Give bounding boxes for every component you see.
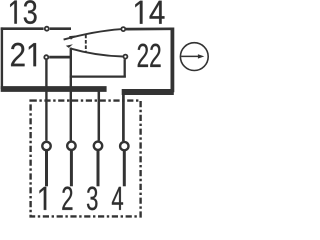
wire: fixed contact line 13 (right of circle, ends at gap) xyxy=(50,27,71,30)
terminal 3 stub xyxy=(97,151,100,187)
contact terminal circle 13 xyxy=(45,27,49,31)
terminal 4 stub xyxy=(123,151,126,186)
wire: 21 to terminal 1 drop xyxy=(45,60,47,141)
pin label 1 xyxy=(39,187,46,210)
terminal 2 stub xyxy=(70,151,73,187)
rotary actuation direction symbol: arrow shaft xyxy=(181,55,199,57)
pin label 2 xyxy=(62,187,72,210)
mechanical link (dashed) between blades xyxy=(85,35,87,52)
actuator shaft (vertical, terminal 2 riser) xyxy=(70,48,72,141)
moving blade NC contact 21-22 xyxy=(70,48,123,56)
contact terminal circle 21 xyxy=(44,55,48,59)
actuator arrowhead xyxy=(66,44,73,48)
wire: cross-link 22 to terminal-2 riser xyxy=(70,75,126,77)
wire: terminal 3 drop xyxy=(98,91,101,141)
terminal block enclosure (dashed box) xyxy=(31,101,141,217)
label 21 xyxy=(11,43,36,66)
pin label 4 xyxy=(112,187,123,210)
terminal circle 3 xyxy=(94,142,102,150)
wire: 14 to terminal 4 (bottom run) xyxy=(122,89,174,95)
wire: terminal 13 line (left segment to contact circle) xyxy=(1,27,44,30)
wire: 22 drop to cross-link xyxy=(124,59,126,77)
terminal circle 1 xyxy=(42,142,50,150)
wire: fixed contact line 21 (circle to junction) xyxy=(49,56,71,59)
wire: 13 to terminal 3 (bottom run) xyxy=(1,86,107,92)
rotary actuation direction symbol: circle xyxy=(180,43,208,71)
contact terminal circle 22 xyxy=(123,55,127,59)
wire: terminal 14 line (circle to right edge) xyxy=(126,27,173,30)
pin label 3 xyxy=(87,187,97,211)
rotary actuation direction symbol: arrowhead xyxy=(198,54,204,58)
wire: 14 to terminal 4 (right edge down) xyxy=(170,28,174,93)
label 22 xyxy=(138,44,161,67)
label 14 xyxy=(135,1,164,24)
wire: terminal 4 drop xyxy=(122,93,125,141)
terminal circle 2 xyxy=(67,142,75,150)
label 13 xyxy=(10,0,36,24)
contact terminal circle 14 xyxy=(121,27,125,31)
wire: 13 to terminal 3 (left edge down) xyxy=(1,27,3,89)
terminal circle 4 xyxy=(120,142,128,150)
terminal 1 stub xyxy=(45,151,48,186)
moving blade NO contact 13-14 xyxy=(64,29,121,39)
arrowhead on NO blade xyxy=(69,36,76,40)
